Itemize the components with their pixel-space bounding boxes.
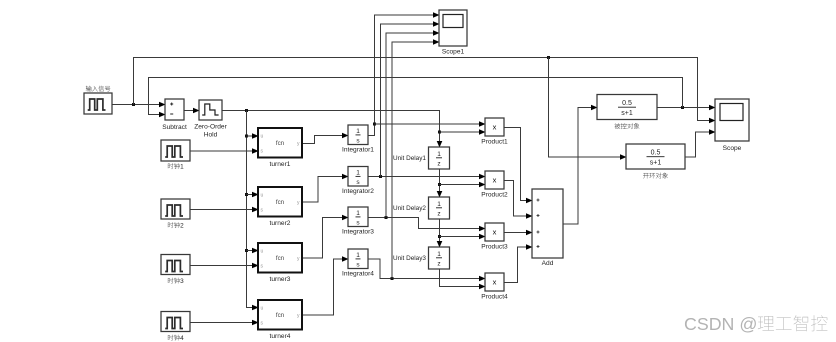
node feedback branch	[681, 106, 684, 109]
wire Integrator1 up to Scope1 input 1	[369, 15, 440, 136]
node delay chain branch 1	[438, 183, 441, 186]
wire Product1 to Add input 1	[505, 128, 533, 201]
wire Product3 to Add input 3	[505, 232, 533, 234]
wire Unit Delay3 to Product4 lower input	[440, 270, 486, 287]
svg-text:Unit Delay2: Unit Delay2	[393, 205, 426, 212]
pulse generator 时钟3	[161, 255, 190, 275]
svg-text:fcn: fcn	[276, 199, 285, 206]
wire branch to turner3 u input	[247, 250, 259, 252]
fcn block turner4	[258, 300, 302, 330]
integrator Integrator4	[348, 249, 368, 269]
pulse generator 时钟1	[161, 140, 190, 161]
node turner2 branch	[245, 193, 248, 196]
node Integrator2 branch	[379, 175, 382, 178]
wire turner4 to Integrator4	[303, 259, 349, 315]
svg-text:z: z	[437, 161, 440, 168]
svg-text:0.5: 0.5	[622, 100, 632, 107]
node Integrator1 branch	[373, 123, 376, 126]
svg-text:Integrator2: Integrator2	[342, 188, 374, 195]
node input branch	[132, 103, 135, 106]
svg-text:Hold: Hold	[204, 132, 218, 139]
svg-text:s+1: s+1	[650, 160, 662, 167]
pulse generator 输入信号	[84, 93, 112, 114]
svg-text:s+1: s+1	[621, 110, 633, 117]
wire Add to controlled plant	[564, 108, 598, 225]
svg-text:Integrator4: Integrator4	[342, 271, 374, 278]
node Integrator3 branch	[385, 216, 388, 219]
svg-text:x: x	[493, 123, 497, 132]
wire branch to turner2 u input	[247, 194, 259, 196]
Zero-Order Hold	[199, 100, 222, 120]
svg-text:1: 1	[437, 151, 441, 158]
wire Integrator4 to Product4 upper input	[369, 259, 486, 279]
pulse generator 时钟2	[161, 199, 190, 219]
svg-text:u: u	[261, 134, 264, 140]
wire trunk down to turners	[247, 111, 259, 308]
svg-text:turner3: turner3	[270, 276, 291, 283]
svg-text:fcn: fcn	[276, 255, 285, 262]
wire turner3 to Integrator3	[303, 218, 349, 259]
svg-text:u: u	[261, 306, 264, 312]
fcn block turner3	[258, 243, 302, 273]
svg-text:turner4: turner4	[270, 333, 291, 340]
svg-text:4: 4	[180, 335, 184, 342]
sum block Add	[532, 189, 563, 258]
svg-text:Add: Add	[542, 260, 554, 267]
svg-text:1: 1	[180, 164, 184, 171]
wire turner1 to Integrator1	[303, 136, 349, 144]
fcn block turner2	[258, 187, 302, 217]
svg-text:2: 2	[180, 223, 184, 230]
svg-text:0.5: 0.5	[651, 149, 661, 156]
transfer function 开环对象 0.5/(s+1)	[626, 144, 685, 169]
wire branch down to open-loop plant input	[549, 58, 627, 158]
svg-text:Subtract: Subtract	[162, 124, 187, 131]
svg-text:Integrator3: Integrator3	[342, 229, 374, 236]
svg-text:x: x	[493, 176, 497, 185]
wire Product2 to Add input 2	[505, 181, 533, 217]
svg-text:Integrator1: Integrator1	[342, 147, 374, 154]
multiplier Product4	[485, 273, 504, 291]
multiplier Product2	[485, 171, 504, 189]
wire open-loop plant to Scope input 3	[686, 132, 716, 157]
wire Subtract to Zero-Order Hold	[185, 110, 200, 112]
wire clock3 to turner3	[191, 265, 259, 267]
svg-text:u: u	[261, 193, 264, 199]
svg-text:Zero-Order: Zero-Order	[194, 124, 227, 131]
svg-text:1: 1	[437, 201, 441, 208]
wire Integrator3 to Product3 upper input	[369, 218, 486, 229]
wire input signal to Subtract	[113, 104, 166, 106]
scope Scope	[715, 99, 749, 141]
arrowheads	[159, 102, 166, 108]
node turner3 branch	[245, 249, 248, 252]
wire Product4 to Add input 4	[505, 247, 533, 283]
svg-text:3: 3	[180, 278, 184, 285]
wire branch to Product2 lower input	[440, 184, 486, 186]
svg-text:Unit Delay1: Unit Delay1	[393, 155, 426, 162]
svg-text:z: z	[437, 211, 440, 218]
wire Integrator4 lane up to Scope1 input 4	[392, 42, 440, 279]
sum block Subtract	[165, 99, 184, 120]
svg-text:fcn: fcn	[276, 140, 285, 147]
unit delay Unit Delay1	[429, 147, 450, 169]
node Integrator4 branch	[391, 277, 394, 280]
svg-text:x: x	[493, 228, 497, 237]
wire Unit Delay2 to Unit Delay3	[439, 220, 441, 248]
wire clock4 to turner4	[191, 322, 259, 324]
svg-text:CSDN @: CSDN @	[684, 314, 757, 334]
svg-text:z: z	[437, 261, 440, 268]
wire Integrator3 lane up to Scope1 input 3	[386, 33, 440, 218]
svg-text:u: u	[261, 249, 264, 255]
svg-text:x: x	[493, 278, 497, 287]
svg-text:Product3: Product3	[481, 244, 508, 251]
wire branch to Product1 lower input	[440, 131, 486, 133]
svg-text:fcn: fcn	[276, 312, 285, 319]
svg-text:1: 1	[356, 128, 360, 135]
svg-text:1: 1	[437, 251, 441, 258]
svg-text:1: 1	[356, 252, 360, 259]
transfer function 被控对象 0.5/(s+1)	[597, 95, 657, 120]
svg-text:Unit Delay3: Unit Delay3	[393, 255, 426, 262]
svg-text:Scope1: Scope1	[442, 49, 465, 56]
unit delay Unit Delay3	[429, 247, 450, 269]
wire clock1 to turner1	[191, 150, 259, 152]
svg-text:1: 1	[356, 210, 360, 217]
svg-text:Product1: Product1	[481, 139, 508, 146]
wire input branch up and across top to Scope input 2	[134, 58, 716, 121]
multiplier Product3	[485, 223, 504, 241]
node trunk branch	[245, 109, 248, 112]
svg-text:turner1: turner1	[270, 161, 291, 168]
integrator Integrator1	[348, 125, 368, 145]
node turner1 branch	[245, 135, 248, 138]
wire turner2 to Integrator2	[303, 177, 349, 203]
svg-text:1: 1	[356, 170, 360, 177]
svg-text:turner2: turner2	[270, 220, 291, 227]
wire Integrator2 to Product2 upper input	[369, 176, 486, 178]
wire branch to Product3 lower input	[440, 236, 486, 238]
pulse generator 时钟4	[161, 312, 190, 332]
scope Scope1	[439, 10, 467, 46]
wire branch to turner1 u input	[247, 135, 259, 137]
wire clock2 to turner2	[191, 209, 259, 211]
wire plant output to Scope input 1	[658, 107, 716, 109]
fcn block turner1	[258, 128, 302, 158]
wire branch to Product1 upper input	[375, 123, 486, 125]
wire Zero-Order Hold output across to Unit Delay1	[223, 111, 440, 148]
wire Unit Delay1 to Unit Delay2	[439, 170, 441, 198]
unit delay Unit Delay2	[429, 197, 450, 219]
svg-text:Product2: Product2	[481, 192, 508, 199]
multiplier Product1	[485, 118, 504, 136]
integrator Integrator2	[348, 167, 368, 187]
node open-loop branch	[547, 56, 550, 59]
down arrowheads into unit delays	[437, 141, 443, 148]
wire Integrator2 lane up to Scope1 input 2	[381, 24, 440, 177]
svg-text:Scope: Scope	[723, 145, 742, 152]
node delay chain branch 2	[438, 235, 441, 238]
node product1 lower branch	[438, 131, 441, 134]
integrator Integrator3	[348, 207, 368, 227]
svg-text:Product4: Product4	[481, 294, 508, 301]
wire feedback to Subtract minus input	[149, 78, 683, 115]
